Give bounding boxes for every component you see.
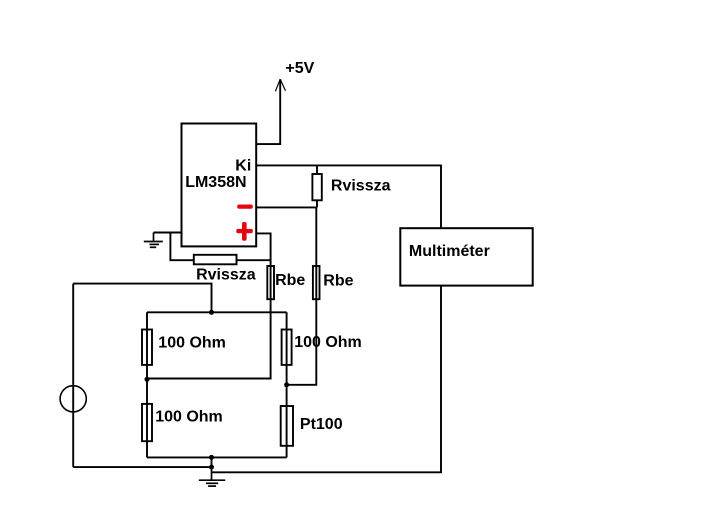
- svg-text:100 Ohm: 100 Ohm: [158, 335, 226, 352]
- wire: Rbe2 bottom down to bridge right node: [287, 299, 317, 385]
- wire: ground to op-amp left pin: [154, 232, 182, 234]
- resistor 100 Ohm (bridge upper-right): [282, 330, 292, 365]
- op-amp U1 box: [182, 124, 257, 247]
- resistor 100 Ohm (bridge upper-left): [142, 330, 152, 365]
- wire: inverting node down to Rbe2: [315, 207, 317, 299]
- svg-text:Multiméter: Multiméter: [409, 243, 490, 260]
- resistor Rbe (left): [267, 266, 274, 299]
- current source I1: [60, 284, 86, 468]
- wire: inverting input: [256, 206, 316, 208]
- op-amp inverting input marker (red minus): [237, 205, 253, 209]
- wire: bridge left branch: [146, 312, 148, 457]
- node: bridge top junction: [209, 310, 214, 315]
- wire: non-inverting input: [256, 233, 271, 260]
- svg-text:Rvissza: Rvissza: [331, 178, 391, 195]
- wire: right return rail to multimeter: [212, 286, 442, 473]
- wire: left return rail to source: [73, 466, 211, 468]
- resistor Rvissza (feedback, vertical): [312, 174, 321, 200]
- wire: bridge bottom to ground rail: [211, 457, 213, 467]
- op-amp non-inverting input marker (red plus): [236, 222, 253, 241]
- node: bridge left mid junction: [145, 377, 150, 382]
- wire: bridge right branch: [286, 312, 288, 457]
- resistor Pt100: [281, 406, 293, 446]
- wire: bridge bottom rail: [147, 456, 287, 458]
- node: bridge bottom junction: [209, 455, 214, 460]
- wire: output Ki to multimeter: [256, 165, 441, 228]
- resistor 100 Ohm (bridge lower-left): [142, 404, 152, 441]
- svg-text:+5V: +5V: [285, 60, 314, 77]
- wire: down from ground wire to horizontal resistor: [170, 233, 193, 261]
- ground (near op-amp): [144, 233, 163, 248]
- ground (bottom): [199, 467, 225, 486]
- node: bridge right mid junction: [284, 382, 289, 387]
- svg-text:Ki: Ki: [235, 157, 251, 174]
- resistor Rvissza (horizontal): [194, 255, 237, 264]
- svg-text:Rbe: Rbe: [275, 272, 305, 289]
- wire: bridge top rail: [147, 311, 287, 313]
- wire: non-inverting node down through Rbe1 to bridge left node: [147, 260, 271, 378]
- svg-text:100 Ohm: 100 Ohm: [294, 334, 362, 351]
- node: ground rail junction: [209, 465, 214, 470]
- svg-text:Rvissza: Rvissza: [196, 266, 256, 283]
- svg-text:Rbe: Rbe: [323, 273, 353, 290]
- svg-text:100 Ohm: 100 Ohm: [155, 409, 223, 426]
- wire: feedback resistor bottom to inverting node: [316, 200, 318, 207]
- svg-text:LM358N: LM358N: [185, 174, 246, 191]
- wire: stub Ki line to feedback resistor top: [316, 165, 318, 174]
- wire: source top to bridge top node: [73, 284, 211, 313]
- multimeter box: [400, 228, 532, 285]
- wire: horizontal resistor right end to non-inverting node: [237, 259, 271, 261]
- svg-text:Pt100: Pt100: [300, 416, 343, 433]
- resistor Rbe (right): [313, 266, 320, 299]
- power +5V arrow: [256, 79, 286, 144]
